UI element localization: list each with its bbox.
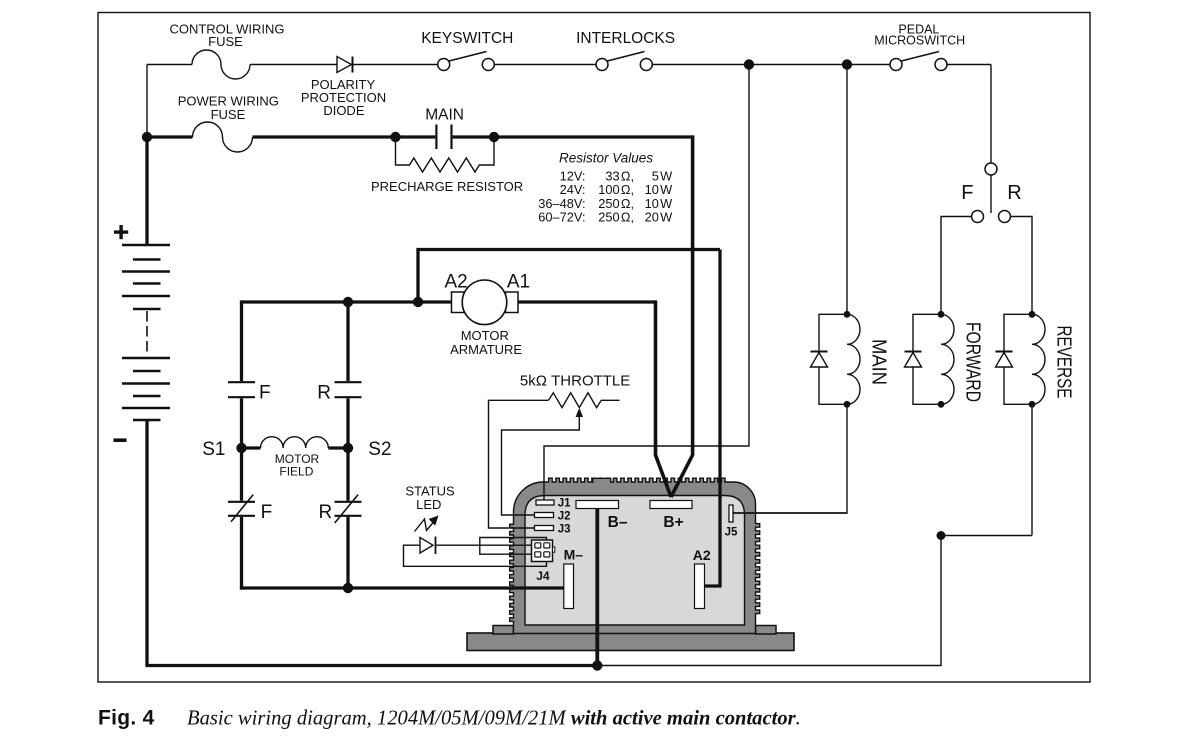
svg-text:10W: 10W — [645, 182, 673, 197]
svg-text:MAIN: MAIN — [868, 339, 890, 385]
svg-text:INTERLOCKS: INTERLOCKS — [576, 30, 675, 47]
svg-text:FUSE: FUSE — [208, 34, 243, 49]
svg-text:S2: S2 — [368, 439, 391, 460]
svg-text:A2: A2 — [693, 547, 711, 563]
svg-text:J2: J2 — [558, 511, 571, 523]
svg-text:MICROSWITCH: MICROSWITCH — [874, 34, 965, 48]
svg-text:F: F — [259, 382, 271, 403]
svg-text:24V:: 24V: — [560, 182, 586, 197]
svg-text:KEYSWITCH: KEYSWITCH — [421, 30, 513, 47]
svg-text:F: F — [261, 502, 273, 523]
svg-text:M–: M– — [564, 547, 584, 563]
svg-text:J3: J3 — [558, 524, 571, 536]
svg-text:PRECHARGE RESISTOR: PRECHARGE RESISTOR — [371, 179, 523, 194]
svg-text:J5: J5 — [725, 526, 738, 538]
svg-text:R: R — [318, 502, 332, 523]
svg-text:S1: S1 — [202, 439, 225, 460]
svg-text:ARMATURE: ARMATURE — [450, 342, 522, 357]
svg-text:A2: A2 — [444, 271, 467, 292]
svg-text:J1: J1 — [558, 497, 571, 509]
svg-text:5kΩ THROTTLE: 5kΩ THROTTLE — [520, 372, 630, 389]
svg-text:DIODE: DIODE — [323, 103, 365, 118]
svg-text:REVERSE: REVERSE — [1053, 326, 1075, 399]
svg-text:B+: B+ — [663, 514, 683, 531]
svg-text:R: R — [1007, 182, 1021, 204]
svg-text:Basic wiring diagram, 1204M/05: Basic wiring diagram, 1204M/05M/09M/21M … — [187, 708, 801, 730]
svg-text:250Ω,: 250Ω, — [598, 210, 634, 225]
svg-text:B–: B– — [608, 514, 628, 531]
svg-text:20W: 20W — [645, 210, 673, 225]
svg-text:FIELD: FIELD — [279, 465, 313, 479]
svg-text:12V:: 12V: — [560, 168, 586, 183]
svg-text:LED: LED — [416, 497, 441, 512]
svg-text:FUSE: FUSE — [211, 107, 246, 122]
svg-text:5W: 5W — [652, 168, 673, 183]
svg-text:MAIN: MAIN — [425, 106, 464, 123]
svg-text:100Ω,: 100Ω, — [598, 182, 634, 197]
svg-text:Resistor Values: Resistor Values — [559, 151, 653, 166]
svg-text:FORWARD: FORWARD — [962, 322, 984, 402]
svg-text:60–72V:: 60–72V: — [538, 210, 585, 225]
svg-text:A1: A1 — [507, 271, 530, 292]
svg-text:MOTOR: MOTOR — [461, 328, 509, 343]
svg-text:R: R — [317, 382, 331, 403]
svg-text:J4: J4 — [536, 569, 550, 583]
svg-text:Fig. 4: Fig. 4 — [98, 707, 155, 730]
svg-text:F: F — [961, 182, 973, 204]
